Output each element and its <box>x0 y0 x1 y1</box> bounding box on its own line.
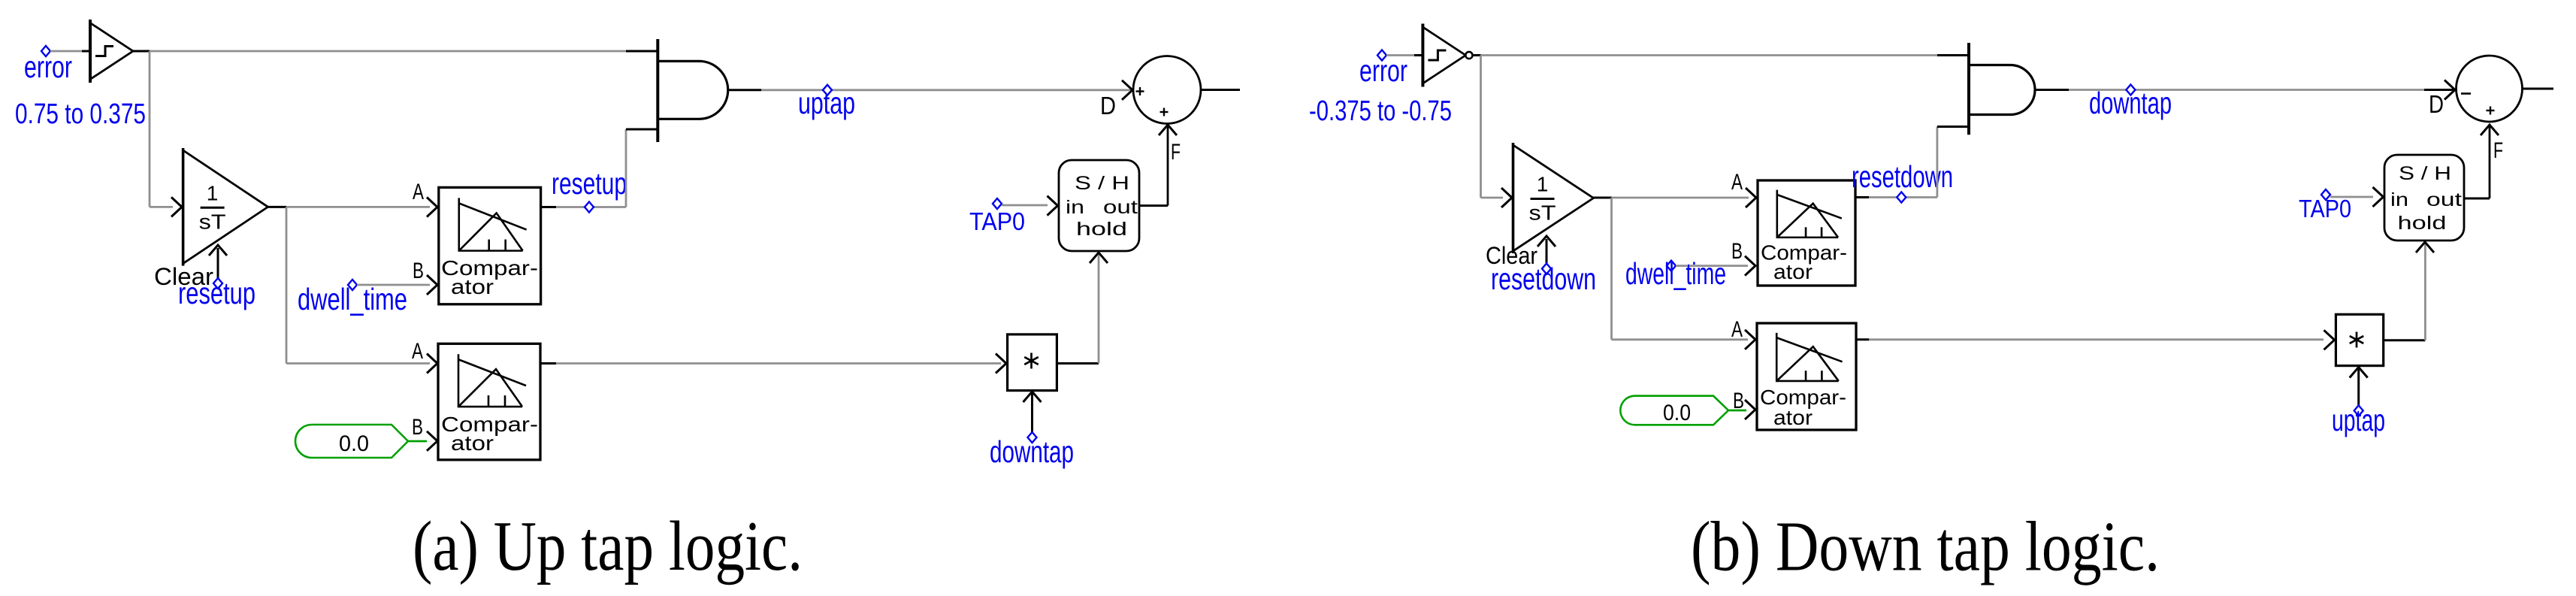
svg-text:ator: ator <box>1773 260 1813 283</box>
svg-text:dwell_time: dwell_time <box>1625 256 1726 291</box>
svg-text:D: D <box>1100 92 1116 120</box>
svg-text:sT: sT <box>199 210 226 233</box>
svg-text:in: in <box>2390 189 2408 210</box>
svg-text:A: A <box>1731 170 1743 195</box>
svg-text:S / H: S / H <box>2399 163 2451 184</box>
svg-text:(a) Up tap logic.: (a) Up tap logic. <box>413 507 803 585</box>
svg-text:S / H: S / H <box>1075 173 1129 194</box>
svg-text:resetdown: resetdown <box>1491 262 1596 296</box>
svg-text:sT: sT <box>1529 201 1556 225</box>
svg-text:ator: ator <box>451 275 494 298</box>
svg-text:in: in <box>1066 197 1084 218</box>
svg-text:ator: ator <box>451 431 494 455</box>
svg-text:uptap: uptap <box>798 86 855 120</box>
svg-text:1: 1 <box>207 181 219 204</box>
svg-text:F: F <box>2493 138 2503 163</box>
svg-text:uptap: uptap <box>2332 403 2385 437</box>
svg-text:F: F <box>1171 140 1181 165</box>
svg-text:1: 1 <box>1537 173 1549 196</box>
svg-text:hold: hold <box>1076 219 1127 240</box>
svg-text:0.0: 0.0 <box>339 431 369 456</box>
svg-text:TAP0: TAP0 <box>2299 195 2351 222</box>
svg-text:dwell_time: dwell_time <box>298 282 407 316</box>
svg-text:downtap: downtap <box>2089 86 2172 120</box>
svg-text:0.75 to 0.375: 0.75 to 0.375 <box>15 98 146 130</box>
svg-text:-0.375 to -0.75: -0.375 to -0.75 <box>1309 95 1452 127</box>
svg-text:B: B <box>1731 239 1743 264</box>
svg-text:(b) Down tap logic.: (b) Down tap logic. <box>1691 508 2160 586</box>
svg-text:downtap: downtap <box>990 434 1074 469</box>
svg-text:out: out <box>2426 189 2462 210</box>
svg-text:resetup: resetup <box>552 166 627 201</box>
svg-text:error: error <box>24 50 72 84</box>
svg-text:A: A <box>413 180 424 204</box>
svg-text:resetup: resetup <box>178 276 255 310</box>
svg-text:ator: ator <box>1773 406 1813 429</box>
svg-text:error: error <box>1359 53 1407 88</box>
svg-text:A: A <box>412 339 423 364</box>
svg-text:TAP0: TAP0 <box>969 207 1025 235</box>
svg-text:hold: hold <box>2398 213 2447 234</box>
svg-text:A: A <box>1731 317 1743 342</box>
svg-text:out: out <box>1103 197 1138 218</box>
svg-text:B: B <box>413 259 424 283</box>
svg-text:B: B <box>412 415 423 440</box>
svg-text:D: D <box>2429 90 2444 118</box>
svg-text:0.0: 0.0 <box>1663 401 1691 425</box>
